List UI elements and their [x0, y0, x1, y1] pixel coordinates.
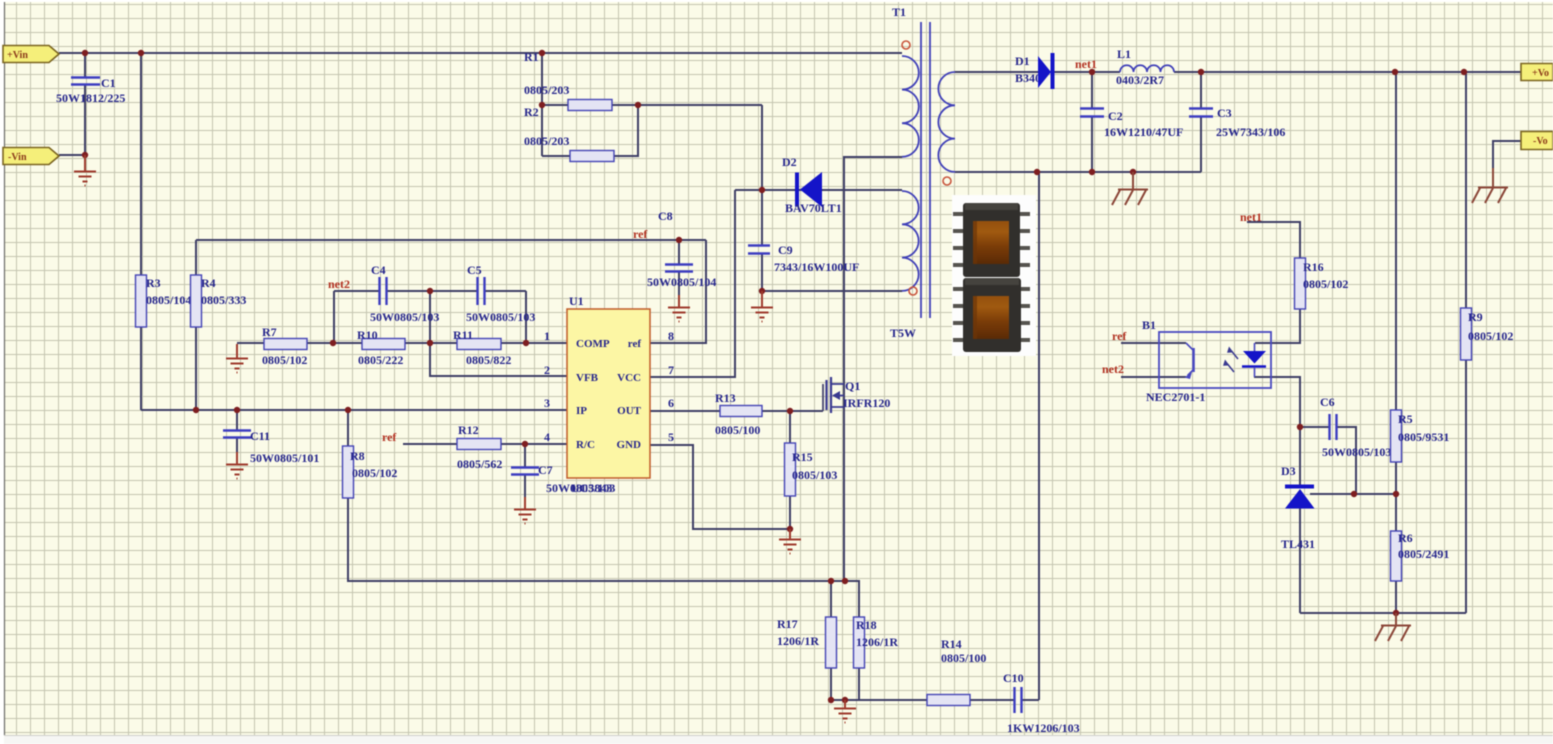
wire R4 vertical ref-rail to pin3 bus	[195, 240, 197, 410]
diode D2 BAV70LT1	[782, 155, 842, 215]
svg-text:R6: R6	[1398, 531, 1413, 545]
svg-text:1206/1R: 1206/1R	[777, 634, 819, 648]
svg-text:0805/222: 0805/222	[358, 353, 403, 367]
svg-text:R11: R11	[453, 328, 473, 342]
capacitor C2	[1080, 109, 1183, 140]
svg-text:1206/1R: 1206/1R	[856, 635, 898, 649]
transistor Q1 IRFR120	[823, 377, 890, 413]
capacitor C5	[466, 263, 535, 324]
svg-text:D1: D1	[1015, 54, 1030, 68]
PORTS	[3, 46, 1553, 165]
svg-text:6: 6	[668, 396, 674, 410]
capacitor C4	[370, 263, 439, 324]
svg-text:3: 3	[544, 396, 550, 410]
svg-text:R3: R3	[146, 276, 161, 290]
svg-text:IRFR120: IRFR120	[843, 396, 890, 410]
wire R16 bottom to optocoupler	[1255, 309, 1300, 343]
wire C1 leads	[84, 53, 86, 155]
wire VCC vertical	[650, 190, 735, 377]
svg-text:50W0805/103: 50W0805/103	[1322, 445, 1391, 459]
wire pin8 ref vertical and stub	[650, 240, 706, 343]
junction dots input rail	[82, 50, 545, 158]
svg-text:0805/102: 0805/102	[262, 353, 307, 367]
svg-text:0805/102: 0805/102	[1303, 277, 1348, 291]
svg-text:R1: R1	[524, 50, 539, 64]
resistor R17	[777, 617, 837, 668]
wire C5 right vertical	[525, 291, 527, 343]
wire C4C5 mid vertical to pin2	[430, 291, 567, 376]
resistor R8	[343, 446, 398, 498]
wire R9 vertical	[1465, 72, 1467, 613]
wire GND pin5	[650, 445, 790, 529]
svg-text:R13: R13	[715, 391, 736, 405]
svg-text:R14: R14	[941, 637, 962, 651]
GROUNDS	[74, 155, 1508, 723]
svg-text:50W0805/101: 50W0805/101	[250, 451, 319, 465]
svg-text:50W0805/103: 50W0805/103	[370, 310, 439, 324]
resistor R4	[191, 275, 247, 327]
wire D3 ref row	[1310, 493, 1396, 495]
svg-text:C5: C5	[467, 263, 482, 277]
wire -Vo to earth	[1493, 141, 1521, 170]
wire C9 leads	[761, 190, 763, 291]
wire C10 right vertical to secondary rail	[1038, 172, 1040, 700]
svg-text:R12: R12	[458, 423, 479, 437]
capacitor C7	[511, 463, 615, 495]
svg-text:C2: C2	[1108, 109, 1123, 123]
wire R1R2 down to D2 node	[761, 105, 763, 190]
svg-text:0805/203: 0805/203	[524, 134, 569, 148]
capacitor C6	[1320, 395, 1391, 459]
svg-text:TL431: TL431	[1281, 537, 1315, 551]
ground at C1 / -Vin	[74, 155, 96, 186]
svg-text:BAV70LT1: BAV70LT1	[785, 201, 842, 215]
wire secondary bottom rail	[955, 171, 1201, 173]
node ref label at C8	[633, 227, 648, 241]
svg-text:0805/102: 0805/102	[1468, 329, 1513, 343]
svg-text:0805/203: 0805/203	[524, 83, 569, 97]
resistor R18	[854, 617, 899, 668]
wire R1 row	[542, 53, 762, 156]
optocoupler B1 NEC2701-1	[1142, 318, 1271, 404]
svg-text:D2: D2	[782, 155, 797, 169]
svg-text:+Vin: +Vin	[7, 50, 28, 61]
junction dots secondary ground rail	[1034, 169, 1136, 175]
svg-text:R9: R9	[1468, 310, 1483, 324]
ground at R17 R18 bottom	[834, 700, 856, 723]
wire C4 C5 top row	[334, 290, 526, 292]
wire C3 leads	[1200, 72, 1202, 172]
svg-text:C3: C3	[1217, 106, 1232, 120]
svg-text:R2: R2	[524, 105, 539, 119]
wire OUT pin6 row	[650, 410, 823, 412]
svg-text:ref: ref	[628, 338, 642, 350]
svg-text:C10: C10	[1003, 671, 1024, 685]
wire C7 lead	[524, 444, 526, 497]
svg-text:OUT: OUT	[617, 405, 642, 417]
capacitor C3	[1189, 106, 1285, 139]
svg-text:1: 1	[544, 329, 550, 343]
wire bottom bus through R14 to C10	[831, 699, 1039, 701]
resistor R16	[1295, 258, 1349, 309]
transformer T1	[890, 5, 955, 340]
node ref label at B1	[1112, 329, 1127, 343]
wire C11 lead	[236, 410, 238, 452]
wire pin4 R/C row	[403, 443, 567, 445]
svg-text:5: 5	[668, 430, 674, 444]
capacitor C9	[748, 243, 859, 274]
svg-text:U1: U1	[569, 294, 584, 308]
wire pin3 bus	[141, 409, 567, 411]
svg-text:R5: R5	[1398, 412, 1413, 426]
node net1 label output	[1075, 57, 1097, 71]
wire D3 vertical	[1299, 427, 1301, 613]
svg-text:T5W: T5W	[890, 326, 916, 340]
svg-text:C7: C7	[538, 463, 553, 477]
svg-text:ref: ref	[382, 430, 397, 444]
resistor R12	[457, 423, 502, 471]
ground at C9	[751, 291, 773, 322]
svg-text:0805/100: 0805/100	[941, 651, 986, 665]
svg-text:B1: B1	[1142, 318, 1156, 332]
svg-text:25W7343/106: 25W7343/106	[1216, 125, 1285, 139]
svg-text:0805/102: 0805/102	[352, 466, 397, 480]
svg-text:C6: C6	[1320, 395, 1335, 409]
wire D2 rail to aux winding	[735, 189, 902, 191]
wire +Vin top rail	[59, 52, 902, 54]
inductor L1	[1116, 47, 1174, 87]
wire opto cathode to C6 node	[1254, 377, 1300, 427]
svg-text:16W1210/47UF: 16W1210/47UF	[1104, 125, 1183, 139]
junction dots pin3 bus	[193, 407, 351, 413]
svg-text:T1: T1	[892, 5, 906, 19]
node net2 label	[328, 277, 350, 291]
resistor R7	[262, 325, 307, 367]
junction dot ref rail C8	[676, 237, 682, 243]
junction dots sense bus	[828, 578, 848, 703]
svg-text:0805/562: 0805/562	[457, 457, 502, 471]
svg-text:50W0805/103: 50W0805/103	[466, 310, 535, 324]
capacitor C8	[647, 209, 716, 289]
resistor R9	[1461, 308, 1514, 360]
port +Vo	[1521, 64, 1553, 81]
svg-text:1KW1206/103: 1KW1206/103	[1007, 721, 1080, 735]
wire bottom right bus	[1300, 612, 1466, 614]
wire C8 leads	[678, 240, 680, 295]
op-amp U1 UC3843 controller	[567, 294, 650, 495]
svg-text:R16: R16	[1303, 260, 1324, 274]
svg-text:0805/822: 0805/822	[466, 353, 511, 367]
wire R15 leads	[789, 411, 791, 529]
svg-text:0403/2R7: 0403/2R7	[1116, 73, 1164, 87]
svg-text:IP: IP	[576, 405, 587, 417]
svg-text:R/C: R/C	[576, 439, 595, 451]
earth ground -Vo	[1472, 168, 1508, 203]
junction dot C7	[522, 441, 528, 447]
svg-text:net2: net2	[328, 277, 350, 291]
junction dots D2 C9 node	[759, 187, 765, 294]
wire COMP pin1 row	[237, 342, 567, 344]
svg-text:GND: GND	[617, 439, 642, 451]
node net2 label at B1	[1102, 362, 1124, 376]
svg-text:R18: R18	[856, 618, 877, 632]
resistor R11	[453, 328, 511, 367]
resistor R6	[1391, 531, 1450, 581]
svg-text:C11: C11	[250, 429, 270, 443]
svg-text:-Vo: -Vo	[1533, 136, 1548, 147]
ground at C7	[514, 497, 536, 524]
node net1 label feedback	[1240, 210, 1262, 224]
capacitor C1	[56, 76, 125, 105]
svg-text:ref: ref	[633, 227, 648, 241]
svg-text:7343/16W100UF: 7343/16W100UF	[774, 260, 859, 274]
svg-text:2: 2	[544, 363, 550, 377]
svg-text:R7: R7	[262, 325, 277, 339]
svg-text:D3: D3	[1281, 464, 1296, 478]
svg-text:B340: B340	[1015, 71, 1041, 85]
wire R18 top lead	[845, 581, 859, 617]
svg-text:COMP: COMP	[576, 338, 610, 350]
resistor R13	[715, 391, 762, 437]
svg-text:R17: R17	[777, 617, 798, 631]
svg-text:R4: R4	[201, 276, 216, 290]
junction dots OUT row	[787, 408, 793, 532]
wire net2 vertical	[333, 291, 335, 343]
wire R17 top lead	[830, 581, 832, 617]
svg-text:0805/103: 0805/103	[792, 468, 837, 482]
junction dots output rail	[1089, 69, 1467, 75]
resistor R10	[357, 328, 405, 367]
node ref label at R12	[382, 430, 397, 444]
ground at R7 left	[226, 344, 248, 373]
earth ground feedback divider	[1375, 613, 1411, 641]
svg-text:0805/100: 0805/100	[715, 423, 760, 437]
junction dots feedback	[1297, 424, 1399, 616]
wire C6 row	[1300, 427, 1356, 494]
wire secondary top to +Vo	[955, 71, 1521, 73]
ground at C8	[668, 295, 690, 322]
svg-text:C4: C4	[371, 263, 386, 277]
ground at C11	[226, 452, 248, 479]
svg-text:0805/104: 0805/104	[146, 293, 191, 307]
port -Vin	[3, 148, 59, 165]
svg-text:-Vin: -Vin	[8, 152, 27, 163]
svg-text:R15: R15	[792, 450, 813, 464]
wire ref rail horizontal	[196, 239, 706, 241]
earth ground secondary rail	[1112, 172, 1148, 205]
U1 pin numbers	[544, 329, 674, 444]
junction dots comp divider row	[330, 288, 529, 346]
svg-text:8: 8	[668, 329, 674, 343]
svg-text:NEC2701-1: NEC2701-1	[1146, 390, 1205, 404]
svg-text:ref: ref	[1112, 329, 1127, 343]
wire C2 leads	[1091, 72, 1093, 172]
diode D3 TL431	[1281, 464, 1315, 551]
svg-text:Q1: Q1	[845, 379, 860, 393]
wire R5 R6 vertical	[1395, 72, 1397, 613]
svg-text:R10: R10	[357, 328, 378, 342]
svg-text:C1: C1	[101, 76, 116, 90]
resistor R3	[136, 275, 192, 327]
wire net1 to R16	[1247, 222, 1300, 258]
svg-text:net1: net1	[1240, 210, 1262, 224]
resistor R15	[785, 443, 838, 496]
resistor R5	[1391, 410, 1450, 462]
svg-text:net2: net2	[1102, 362, 1124, 376]
svg-text:7: 7	[668, 363, 674, 377]
wire -Vin to C1	[59, 154, 85, 156]
svg-text:UC3843: UC3843	[571, 481, 612, 495]
wire aux winding bottom	[762, 290, 902, 292]
wire R2 row	[542, 105, 638, 156]
diode D1 B340	[1015, 53, 1053, 89]
svg-text:net1: net1	[1075, 57, 1097, 71]
resistor R1	[524, 50, 612, 111]
wire R3 vertical from rail to pin3 bus	[140, 53, 142, 410]
capacitor C10	[1003, 671, 1080, 735]
resistor R14	[927, 637, 986, 706]
svg-text:C9: C9	[778, 243, 793, 257]
svg-text:0805/9531: 0805/9531	[1398, 430, 1449, 444]
svg-text:50W1812/225: 50W1812/225	[56, 91, 125, 105]
wire primary bottom to Q1 drain	[844, 157, 902, 581]
capacitor C11	[223, 429, 319, 465]
svg-text:R8: R8	[350, 449, 365, 463]
wire R8 bottom to current-sense bus	[348, 498, 845, 581]
svg-text:VFB: VFB	[576, 372, 599, 384]
transformer component photo	[952, 195, 1036, 356]
svg-text:0805/333: 0805/333	[201, 293, 246, 307]
wire R8 top lead	[347, 410, 349, 446]
svg-text:+Vo: +Vo	[1532, 68, 1549, 79]
svg-text:L1: L1	[1117, 47, 1131, 61]
ground at R15 / pin5	[779, 529, 801, 554]
port +Vin	[3, 46, 59, 63]
svg-text:0805/2491: 0805/2491	[1398, 547, 1449, 561]
wire R17 R18 bottoms to sense bus	[831, 668, 859, 700]
svg-text:C8: C8	[658, 209, 673, 223]
junction dots R1 R2	[539, 102, 641, 108]
wire opto input pins	[1121, 343, 1186, 377]
port -Vo	[1521, 132, 1553, 150]
svg-text:4: 4	[544, 430, 550, 444]
svg-text:VCC: VCC	[617, 372, 641, 384]
resistor R2	[524, 105, 614, 162]
svg-text:50W0805/104: 50W0805/104	[647, 275, 716, 289]
